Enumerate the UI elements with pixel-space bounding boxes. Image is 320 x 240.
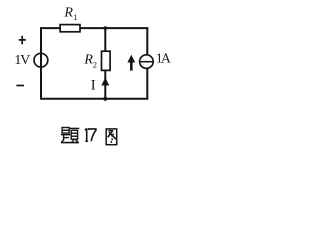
svg-text:1V: 1V — [14, 53, 30, 68]
wire bottom — [40, 98, 148, 100]
svg-text:1A: 1A — [156, 51, 171, 66]
wire right — [146, 27, 148, 99]
svg-text:I: I — [91, 77, 96, 93]
resistor R1 — [60, 6, 80, 32]
svg-text:R: R — [63, 6, 73, 21]
wire middle branch — [104, 28, 106, 99]
resistor R2 — [83, 51, 110, 70]
node B (bottom junction dot) — [103, 97, 107, 101]
wire left — [40, 27, 42, 99]
node A (top junction dot) — [103, 26, 107, 30]
caption digit 7 — [89, 129, 96, 141]
hanzi TU (图) — [106, 129, 117, 145]
hanzi TI (题) — [61, 128, 79, 143]
caption — [61, 128, 117, 145]
caption digit 1 — [85, 128, 88, 141]
current source 1A — [128, 51, 171, 71]
current arrow I — [91, 77, 109, 93]
wire top — [40, 27, 148, 29]
svg-text:1: 1 — [73, 12, 77, 22]
svg-text:2: 2 — [93, 59, 97, 69]
voltage source 1V — [14, 36, 47, 86]
